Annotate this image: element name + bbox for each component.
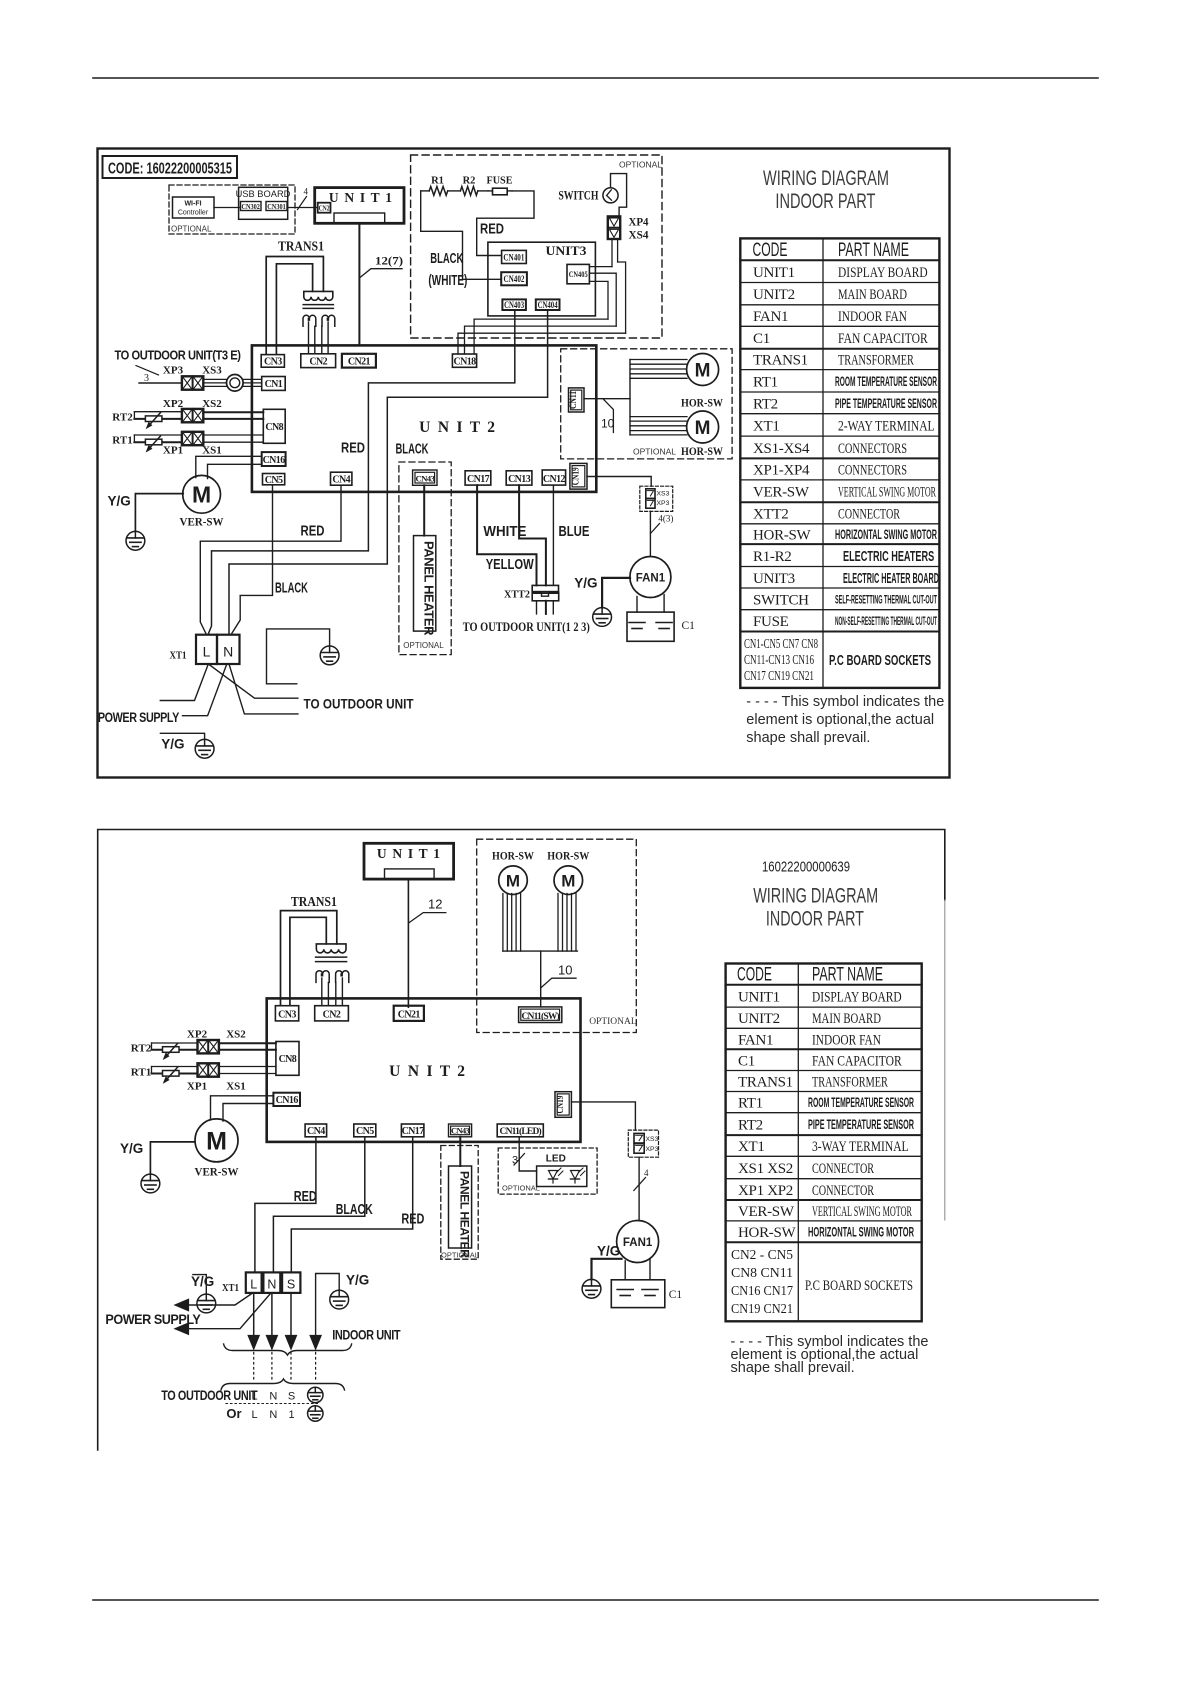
svg-text:4: 4 bbox=[644, 1168, 649, 1178]
wire XS3 to FAN1 d2 bbox=[638, 1157, 640, 1220]
svg-text:USB BOARD: USB BOARD bbox=[236, 189, 291, 199]
svg-text:N: N bbox=[223, 644, 233, 660]
svg-text:XT1: XT1 bbox=[753, 418, 780, 434]
svg-text:XP3: XP3 bbox=[646, 1146, 659, 1153]
wire N to power supply arrow d2 bbox=[189, 1293, 272, 1329]
wire count 10 marker d2 bbox=[541, 978, 576, 988]
transformer primary winding bbox=[304, 291, 333, 300]
wires XS4 down bbox=[611, 239, 613, 267]
wires VER-SW to CN16 bbox=[196, 456, 262, 477]
usb board U301 bbox=[239, 187, 288, 219]
panel heater PANEL HEATER d2 bbox=[449, 1166, 472, 1248]
svg-text:ROOM TEMPERATURE SENSOR: ROOM TEMPERATURE SENSOR bbox=[808, 1095, 914, 1110]
svg-text:P.C BOARD SOCKETS: P.C BOARD SOCKETS bbox=[805, 1278, 913, 1294]
svg-text:VERTICAL SWING MOTOR: VERTICAL SWING MOTOR bbox=[838, 485, 936, 501]
wifi controller box bbox=[173, 197, 215, 218]
socket CN3 bbox=[261, 355, 284, 368]
svg-text:TRANS1: TRANS1 bbox=[278, 239, 324, 254]
svg-text:N: N bbox=[269, 1409, 277, 1421]
svg-text:U N I T 2: U N I T 2 bbox=[419, 419, 497, 436]
svg-text:RED: RED bbox=[301, 524, 325, 540]
svg-text:PIPE TEMPERATURE SENSOR: PIPE TEMPERATURE SENSOR bbox=[835, 396, 937, 411]
svg-text:TRANSFORMER: TRANSFORMER bbox=[812, 1075, 888, 1091]
svg-text:CN1-CN5 CN7 CN8: CN1-CN5 CN7 CN8 bbox=[744, 636, 818, 651]
wire Y/G bottom bbox=[160, 733, 204, 739]
svg-text:CN19: CN19 bbox=[572, 467, 582, 485]
svg-text:RED: RED bbox=[401, 1212, 424, 1228]
svg-text:FAN CAPACITOR: FAN CAPACITOR bbox=[812, 1053, 902, 1069]
svg-text:16022200000639: 16022200000639 bbox=[762, 859, 850, 876]
wires FAN1 to C1 d2 bbox=[624, 1261, 626, 1280]
socket CN404 bbox=[536, 299, 560, 310]
svg-text:RED: RED bbox=[480, 222, 504, 238]
svg-text:PIPE TEMPERATURE SENSOR: PIPE TEMPERATURE SENSOR bbox=[808, 1117, 914, 1132]
socket CN405 bbox=[567, 264, 589, 283]
wire CN403 red to terminal bbox=[208, 310, 515, 635]
svg-text:CONNECTOR: CONNECTOR bbox=[812, 1161, 874, 1177]
dotted separator bbox=[226, 1403, 318, 1405]
wifi optional dashed box bbox=[169, 185, 295, 234]
svg-text:XTT2: XTT2 bbox=[504, 590, 530, 601]
socket CN16 bbox=[262, 452, 286, 466]
wire S down arrow bbox=[290, 1293, 292, 1336]
svg-text:VER-SW: VER-SW bbox=[195, 1165, 239, 1179]
svg-text:PANEL HEATER: PANEL HEATER bbox=[458, 1171, 472, 1258]
socket CN18 bbox=[452, 354, 476, 367]
socket CN5 d2 bbox=[354, 1124, 376, 1137]
transformer secondary winding A bbox=[303, 315, 316, 326]
wire CN301 to UNIT1 CN2 bbox=[288, 207, 318, 209]
socket CN11(LED) d2 bbox=[497, 1124, 543, 1137]
wires XS1 to CN8 d2 bbox=[219, 1066, 276, 1068]
transformer secondary winding B bbox=[322, 315, 335, 326]
svg-text:WHITE: WHITE bbox=[483, 524, 526, 540]
wires FAN1 to C1 bbox=[636, 597, 638, 613]
ground near FAN1 bbox=[593, 608, 612, 627]
electric heater board UNIT3 bbox=[488, 242, 596, 316]
svg-text:4(3): 4(3) bbox=[658, 514, 673, 524]
svg-text:CN301: CN301 bbox=[267, 202, 286, 211]
wire L down arrow bbox=[253, 1293, 255, 1336]
svg-text:RT1: RT1 bbox=[753, 374, 778, 390]
svg-text:CN8: CN8 bbox=[265, 422, 283, 433]
svg-text:BLACK: BLACK bbox=[430, 251, 463, 267]
svg-text:VER-SW: VER-SW bbox=[738, 1204, 795, 1220]
svg-text:HOR-SW: HOR-SW bbox=[681, 446, 723, 458]
svg-text:TRANS1: TRANS1 bbox=[738, 1075, 793, 1091]
svg-text:CN8: CN8 bbox=[279, 1054, 297, 1065]
svg-text:INDOOR UNIT: INDOOR UNIT bbox=[332, 1328, 401, 1343]
svg-text:L: L bbox=[252, 1391, 258, 1403]
svg-text:XTT2: XTT2 bbox=[753, 507, 788, 523]
svg-text:HOR-SW: HOR-SW bbox=[753, 527, 812, 543]
diagram 2 right border faded bbox=[944, 900, 946, 1220]
svg-text:CN21: CN21 bbox=[348, 357, 371, 368]
svg-text:- - - - This symbol indicates: - - - - This symbol indicates the bbox=[746, 694, 944, 710]
svg-text:WI-FI: WI-FI bbox=[184, 201, 201, 208]
svg-text:CN402: CN402 bbox=[504, 274, 525, 284]
heater bus wires to CN18 bbox=[474, 319, 608, 354]
svg-text:FAN CAPACITOR: FAN CAPACITOR bbox=[838, 331, 928, 347]
svg-text:M: M bbox=[192, 482, 211, 508]
wire L to outdoor bbox=[208, 664, 298, 698]
wire count 3 marker d2 bbox=[514, 1154, 525, 1166]
socket CN1 bbox=[262, 377, 286, 391]
svg-text:UNIT2: UNIT2 bbox=[753, 287, 795, 303]
svg-text:HORIZONTAL SWING MOTOR: HORIZONTAL SWING MOTOR bbox=[808, 1225, 914, 1240]
svg-text:3-WAY TERMINAL: 3-WAY TERMINAL bbox=[812, 1139, 909, 1155]
svg-text:RED: RED bbox=[294, 1189, 317, 1205]
svg-text:S: S bbox=[287, 1278, 295, 1292]
wire count 10 marker bbox=[603, 399, 614, 433]
svg-text:OPTIONAL: OPTIONAL bbox=[441, 1251, 479, 1260]
svg-text:RED: RED bbox=[341, 441, 365, 457]
fan capacitor C1 d2 bbox=[611, 1280, 665, 1308]
svg-text:WIRING DIAGRAM: WIRING DIAGRAM bbox=[763, 166, 889, 190]
svg-text:XS3: XS3 bbox=[657, 491, 670, 498]
svg-text:CN11(SW): CN11(SW) bbox=[521, 1011, 559, 1022]
heater optional dashed box bbox=[411, 155, 662, 338]
svg-text:L: L bbox=[203, 644, 211, 660]
svg-text:DISPLAY BOARD: DISPLAY BOARD bbox=[838, 265, 928, 281]
socket CN2 on UNIT2 bbox=[301, 354, 336, 368]
svg-text:RT1: RT1 bbox=[112, 435, 132, 447]
wire switch loop bbox=[611, 174, 627, 217]
svg-text:XP2: XP2 bbox=[187, 1029, 208, 1041]
wire heater black branch bbox=[421, 191, 502, 279]
wire CN12 blue bbox=[552, 485, 554, 585]
svg-text:CODE: 16022200005315: CODE: 16022200005315 bbox=[108, 161, 232, 178]
wires XS1 to CN8 bbox=[203, 434, 263, 436]
svg-text:MAIN BOARD: MAIN BOARD bbox=[838, 287, 907, 303]
horizontal swing motor HOR-SW 1 bbox=[687, 354, 719, 386]
svg-text:M: M bbox=[206, 1127, 227, 1155]
svg-text:(WHITE): (WHITE) bbox=[428, 273, 467, 289]
svg-text:TO OUTDOOR UNIT: TO OUTDOOR UNIT bbox=[161, 1388, 258, 1403]
svg-text:CN12: CN12 bbox=[543, 474, 566, 485]
svg-text:INDOOR FAN: INDOOR FAN bbox=[838, 309, 907, 325]
svg-text:CN17: CN17 bbox=[467, 474, 490, 485]
page top rule bbox=[93, 77, 1098, 79]
svg-text:CN4: CN4 bbox=[332, 475, 350, 486]
wire N to power supply bbox=[183, 664, 227, 716]
svg-text:1: 1 bbox=[289, 1409, 295, 1421]
hor-sw optional dashed box d2 bbox=[477, 839, 637, 1032]
wire bundle to HOR-SW motor 1 bbox=[630, 359, 687, 361]
page bottom rule bbox=[93, 1599, 1098, 1601]
wire count 4 marker d2 bbox=[634, 1178, 646, 1191]
svg-text:M: M bbox=[695, 418, 711, 439]
wires XS3 to ferrite bbox=[203, 378, 226, 380]
svg-text:ELECTRIC HEATER BOARD: ELECTRIC HEATER BOARD bbox=[843, 571, 939, 587]
wire Y/G to FAN1 bbox=[602, 578, 630, 608]
svg-text:INDOOR FAN: INDOOR FAN bbox=[812, 1032, 881, 1048]
socket CN302 bbox=[241, 202, 262, 211]
svg-text:Y/G: Y/G bbox=[191, 1274, 214, 1289]
svg-text:CN16: CN16 bbox=[263, 455, 286, 466]
wire CN404 black to terminal bbox=[229, 310, 548, 635]
svg-text:CN16 CN17: CN16 CN17 bbox=[731, 1284, 793, 1299]
svg-text:P.C BOARD SOCKETS: P.C BOARD SOCKETS bbox=[829, 653, 931, 669]
svg-text:S: S bbox=[288, 1391, 295, 1403]
svg-text:XP3: XP3 bbox=[163, 365, 184, 377]
svg-text:R1-R2: R1-R2 bbox=[753, 549, 792, 565]
wires XS2 to CN8 bbox=[203, 411, 263, 413]
socket CN403 bbox=[502, 299, 526, 310]
svg-text:TO OUTDOOR UNIT: TO OUTDOOR UNIT bbox=[304, 697, 415, 712]
brace outdoor unit bbox=[221, 1379, 345, 1390]
svg-text:POWER SUPPLY: POWER SUPPLY bbox=[105, 1312, 200, 1327]
wire XS3 to FAN1 bbox=[649, 511, 651, 556]
code box CODE: 16022200005315 bbox=[103, 156, 238, 178]
svg-text:CODE: CODE bbox=[737, 965, 772, 986]
main board UNIT2 bbox=[252, 345, 596, 492]
svg-text:POWER SUPPLY: POWER SUPPLY bbox=[98, 710, 179, 725]
wire Y/G ground power d2 bbox=[193, 1275, 206, 1294]
svg-text:INDOOR PART: INDOOR PART bbox=[775, 189, 875, 213]
svg-text:RT2: RT2 bbox=[112, 412, 133, 424]
wire N down arrow bbox=[271, 1293, 273, 1336]
svg-text:OPTIONAL: OPTIONAL bbox=[403, 641, 444, 650]
svg-text:12(7): 12(7) bbox=[375, 254, 403, 268]
socket CN19 d2 bbox=[555, 1092, 571, 1118]
svg-text:YELLOW: YELLOW bbox=[486, 557, 534, 573]
wire CN19 to XS3 d2 bbox=[571, 1102, 635, 1130]
svg-text:VER-SW: VER-SW bbox=[753, 485, 810, 501]
svg-text:FAN1: FAN1 bbox=[636, 573, 666, 585]
svg-text:CN43: CN43 bbox=[415, 473, 435, 483]
svg-text:CONNECTORS: CONNECTORS bbox=[838, 463, 907, 479]
svg-text:CN17: CN17 bbox=[402, 1126, 425, 1137]
svg-text:FUSE: FUSE bbox=[753, 614, 789, 630]
svg-text:OPTIONAL: OPTIONAL bbox=[171, 225, 212, 234]
svg-text:4: 4 bbox=[304, 187, 309, 197]
svg-text:CN19 CN21: CN19 CN21 bbox=[731, 1302, 793, 1317]
svg-text:HOR-SW: HOR-SW bbox=[738, 1225, 797, 1241]
vertical swing motor VER-SW d2 bbox=[195, 1119, 238, 1162]
svg-text:NON-SELF-RESETTING THERMAL CUT: NON-SELF-RESETTING THERMAL CUT-OUT bbox=[835, 616, 937, 628]
svg-text:Or: Or bbox=[226, 1406, 241, 1421]
svg-text:OPTIONAL: OPTIONAL bbox=[589, 1017, 637, 1027]
wire Y/G to VER-SW d2 bbox=[150, 1142, 195, 1174]
wire CN19 to XS3 connector bbox=[587, 477, 651, 487]
socket CN16 d2 bbox=[273, 1093, 300, 1106]
svg-text:CN2: CN2 bbox=[319, 205, 330, 213]
svg-text:XP2: XP2 bbox=[163, 398, 184, 410]
ground power supply d2 bbox=[197, 1294, 216, 1313]
wire UNIT1 to CN21 bbox=[358, 223, 360, 345]
wire TRANS1 outer loop bbox=[266, 257, 323, 355]
svg-text:CN11(LED): CN11(LED) bbox=[500, 1126, 542, 1137]
connector XS3 XP3 optional d2 bbox=[628, 1130, 658, 1157]
svg-text:XT1: XT1 bbox=[738, 1139, 765, 1155]
svg-text:RT2: RT2 bbox=[753, 396, 778, 412]
svg-text:Controller: Controller bbox=[178, 210, 209, 217]
svg-text:BLACK: BLACK bbox=[336, 1202, 373, 1218]
svg-text:ELECTRIC HEATERS: ELECTRIC HEATERS bbox=[843, 549, 934, 565]
svg-text:R1: R1 bbox=[431, 176, 444, 187]
svg-text:CN19: CN19 bbox=[556, 1095, 566, 1113]
socket CN402 bbox=[501, 272, 527, 285]
socket CN2 on UNIT1 bbox=[318, 203, 331, 213]
svg-text:C1: C1 bbox=[738, 1053, 755, 1069]
svg-text:HOR-SW: HOR-SW bbox=[681, 398, 723, 410]
svg-text:shape shall prevail.: shape shall prevail. bbox=[746, 730, 870, 746]
socket CN43 d2 bbox=[449, 1124, 472, 1137]
ground indoor d2 bbox=[330, 1290, 349, 1309]
svg-text:CN11-CN13 CN16: CN11-CN13 CN16 bbox=[744, 652, 814, 667]
svg-text:FUSE: FUSE bbox=[487, 176, 513, 187]
dotted wires to outdoor bbox=[253, 1353, 255, 1381]
svg-text:CN21: CN21 bbox=[398, 1010, 421, 1021]
svg-text:RT1: RT1 bbox=[738, 1096, 763, 1112]
svg-text:CN403: CN403 bbox=[504, 300, 524, 310]
wire count 3 marker bbox=[136, 366, 159, 376]
svg-text:SWITCH: SWITCH bbox=[753, 592, 809, 608]
diagram 2 border bbox=[98, 830, 945, 1451]
wire CN43 to panel heater bbox=[423, 485, 425, 535]
svg-text:WIRING DIAGRAM: WIRING DIAGRAM bbox=[753, 885, 878, 908]
wire Y/G to VER-SW bbox=[135, 494, 183, 532]
wire earth outdoor loop bbox=[267, 629, 330, 684]
svg-text:FAN1: FAN1 bbox=[623, 1237, 653, 1249]
svg-text:CONNECTORS: CONNECTORS bbox=[838, 441, 907, 457]
led optional dashed box d2 bbox=[498, 1148, 597, 1194]
wire Y/G to FAN1 d2 bbox=[592, 1259, 622, 1280]
svg-text:CN302: CN302 bbox=[241, 202, 260, 211]
svg-text:UNIT1: UNIT1 bbox=[738, 989, 780, 1005]
socket CN11 bbox=[569, 388, 585, 412]
led diode 2 bbox=[571, 1171, 580, 1180]
svg-text:12: 12 bbox=[428, 897, 442, 912]
svg-text:TRANS1: TRANS1 bbox=[291, 894, 337, 909]
wire count 4(3) marker bbox=[650, 524, 659, 534]
ferrite ring bbox=[227, 375, 244, 392]
wire bundle HOR-SW 1 d2 bbox=[502, 894, 504, 952]
panel heater PANEL HEATER bbox=[414, 536, 436, 632]
display board UNIT1 bbox=[315, 188, 404, 224]
wires secondary to CN2 d2 bbox=[321, 978, 323, 1006]
socket CN2 d2 bbox=[315, 1006, 349, 1021]
svg-text:CN11: CN11 bbox=[569, 391, 579, 409]
svg-text:CN18: CN18 bbox=[453, 356, 476, 367]
wire UNIT1 to CN21 d2 bbox=[407, 879, 409, 1007]
svg-text:CN3: CN3 bbox=[278, 1010, 296, 1021]
socket CN11(SW) d2 bbox=[519, 1007, 562, 1023]
wires VER-SW to CN16 d2 bbox=[211, 1096, 274, 1120]
svg-text:RT2: RT2 bbox=[131, 1043, 152, 1055]
svg-text:10: 10 bbox=[601, 417, 615, 431]
svg-text:Y/G: Y/G bbox=[597, 1244, 620, 1259]
svg-text:FAN1: FAN1 bbox=[738, 1032, 773, 1048]
svg-text:TO OUTDOOR UNIT(T3 E): TO OUTDOOR UNIT(T3 E) bbox=[115, 349, 241, 363]
svg-text:L: L bbox=[252, 1409, 258, 1421]
svg-text:element is optional,the actual: element is optional,the actual bbox=[746, 712, 934, 728]
wire bundle to HOR-SW motor 2 bbox=[630, 416, 687, 418]
svg-text:OPTIONAL: OPTIONAL bbox=[619, 160, 662, 170]
svg-text:CN8 CN11: CN8 CN11 bbox=[731, 1266, 793, 1281]
svg-text:ROOM TEMPERATURE SENSOR: ROOM TEMPERATURE SENSOR bbox=[835, 374, 937, 389]
svg-text:CN17 CN19 CN21: CN17 CN19 CN21 bbox=[744, 668, 814, 683]
svg-text:XP4: XP4 bbox=[629, 215, 649, 229]
socket CN3 d2 bbox=[275, 1006, 298, 1021]
svg-text:U N I T 1: U N I T 1 bbox=[329, 190, 393, 205]
wires ferrite to CN1 bbox=[243, 378, 262, 380]
display board UNIT1 d2 bbox=[364, 843, 454, 879]
svg-text:C1: C1 bbox=[753, 331, 770, 347]
svg-text:UNIT3: UNIT3 bbox=[753, 571, 795, 587]
svg-text:M: M bbox=[506, 871, 520, 890]
transformer secondary winding B d2 bbox=[336, 971, 349, 983]
wire CN11(LED) to LED bbox=[519, 1137, 536, 1171]
ground near FAN1 d2 bbox=[582, 1279, 601, 1298]
svg-text:CN405: CN405 bbox=[569, 269, 588, 279]
svg-text:XT1: XT1 bbox=[170, 650, 187, 662]
svg-text:MAIN BOARD: MAIN BOARD bbox=[812, 1011, 881, 1027]
svg-text:RT1: RT1 bbox=[131, 1067, 151, 1079]
svg-text:CN16: CN16 bbox=[276, 1095, 299, 1106]
wires CN405 stubs bbox=[589, 266, 612, 268]
svg-text:HOR-SW: HOR-SW bbox=[547, 851, 589, 863]
socket CN12 bbox=[542, 470, 565, 485]
svg-text:BLACK: BLACK bbox=[275, 581, 308, 597]
transformer core d2 bbox=[316, 956, 347, 958]
wire TRANS1 inner loop bbox=[276, 264, 312, 354]
svg-text:PART NAME: PART NAME bbox=[838, 240, 909, 261]
transformer core bbox=[303, 304, 333, 306]
panel heater optional dashed box d2 bbox=[441, 1146, 478, 1260]
svg-text:XS2: XS2 bbox=[226, 1029, 246, 1041]
connector XS3 XP3 optional bbox=[640, 486, 673, 511]
svg-text:SWITCH: SWITCH bbox=[558, 188, 598, 203]
wires XTT2 down bbox=[536, 601, 538, 614]
svg-text:FAN1: FAN1 bbox=[753, 309, 788, 325]
svg-text:INDOOR PART: INDOOR PART bbox=[766, 908, 864, 931]
wire CN43 to panel heater d2 bbox=[459, 1137, 461, 1166]
svg-text:C1: C1 bbox=[669, 1289, 683, 1301]
parts table 2 bbox=[726, 964, 922, 1322]
svg-text:XS4: XS4 bbox=[629, 228, 649, 242]
svg-text:SELF-RESETTING THERMAL CUT-OUT: SELF-RESETTING THERMAL CUT-OUT bbox=[835, 594, 937, 606]
svg-text:HOR-SW: HOR-SW bbox=[492, 851, 534, 863]
svg-text:shape shall prevail.: shape shall prevail. bbox=[731, 1360, 855, 1376]
svg-text:U N I T 1: U N I T 1 bbox=[377, 846, 441, 861]
svg-text:CN5: CN5 bbox=[356, 1126, 374, 1137]
svg-text:RT2: RT2 bbox=[738, 1117, 763, 1133]
wire earth down arrow bbox=[316, 1274, 340, 1336]
svg-text:CONNECTOR: CONNECTOR bbox=[812, 1183, 874, 1199]
socket CN21 bbox=[342, 354, 376, 368]
vertical swing motor VER-SW bbox=[183, 475, 221, 513]
ground near VER-SW bbox=[126, 531, 145, 550]
wire count 12 marker d2 bbox=[408, 913, 445, 924]
transformer secondary winding A d2 bbox=[316, 971, 329, 983]
svg-text:PART NAME: PART NAME bbox=[812, 965, 883, 986]
wire heater main loop bbox=[421, 190, 430, 192]
svg-text:XP1-XP4: XP1-XP4 bbox=[753, 463, 810, 479]
svg-text:XS1 XS2: XS1 XS2 bbox=[738, 1161, 793, 1177]
svg-text:XP1: XP1 bbox=[187, 1081, 207, 1093]
wire count 12(7) marker bbox=[359, 269, 402, 278]
wire CN13 white bbox=[519, 485, 546, 585]
svg-text:PANEL HEATER: PANEL HEATER bbox=[422, 541, 437, 636]
socket CN4 bbox=[331, 472, 352, 485]
main board UNIT2 d2 bbox=[267, 998, 581, 1142]
svg-text:XS2: XS2 bbox=[202, 398, 222, 410]
wire N to outdoor bbox=[229, 664, 298, 714]
svg-text:TRANS1: TRANS1 bbox=[753, 353, 808, 369]
hor-sw optional dashed box bbox=[561, 349, 732, 459]
